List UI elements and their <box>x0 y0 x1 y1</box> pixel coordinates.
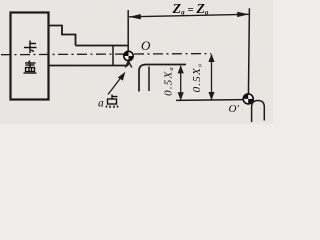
svg-text:0.5Xa: 0.5Xa <box>163 66 176 96</box>
top dimension line Z <box>129 12 249 20</box>
origin symbol O (quadrant circle) <box>124 51 133 60</box>
tool right leg at point a <box>148 67 150 92</box>
workpiece bottom edge <box>49 65 129 67</box>
svg-text:Za = Zo: Za = Zo <box>172 2 209 17</box>
workpiece stepped top profile <box>49 26 76 46</box>
label 点 (hand-drawn glyph) <box>106 95 118 109</box>
svg-text:a: a <box>98 98 104 110</box>
tool hook at point a <box>139 65 186 92</box>
label 卡 (hand-drawn glyph) <box>24 41 37 54</box>
dimension 0.5Xa vertical line <box>178 65 184 100</box>
tool hook at O' <box>252 101 265 123</box>
svg-text:0.5Xo: 0.5Xo <box>191 63 204 93</box>
svg-text:O′: O′ <box>229 103 240 115</box>
right extension line down to O' <box>248 8 249 98</box>
workpiece top edge <box>76 45 129 47</box>
svg-text:O: O <box>141 38 151 53</box>
tool tip V at point a <box>125 61 132 68</box>
workpiece shoulder line <box>112 46 114 66</box>
centerline (dash-dot) <box>1 54 211 55</box>
end face + extension line up to Z dimension <box>127 10 129 66</box>
dimension 0.5X0 vertical line <box>208 54 214 100</box>
bottom reference line through O' <box>176 99 244 102</box>
leader arrow to point a <box>108 72 125 95</box>
origin symbol O' (quadrant circle) <box>243 94 253 104</box>
chuck body 卡盘 <box>11 13 49 100</box>
label 盘 (hand-drawn glyph) <box>24 61 37 74</box>
